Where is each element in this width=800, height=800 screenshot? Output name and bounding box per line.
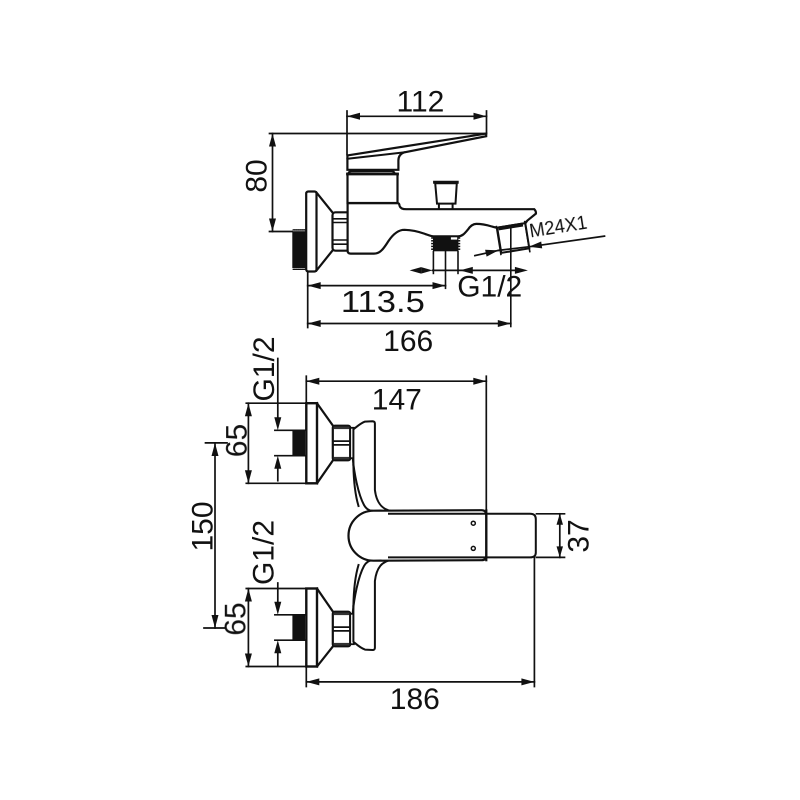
svg-text:113.5: 113.5 xyxy=(341,284,425,319)
svg-text:166: 166 xyxy=(383,325,433,358)
svg-text:112: 112 xyxy=(396,85,444,118)
svg-text:150: 150 xyxy=(186,501,219,551)
svg-text:37: 37 xyxy=(562,519,595,552)
svg-text:65: 65 xyxy=(221,424,254,457)
svg-text:G1/2: G1/2 xyxy=(247,520,280,585)
svg-text:G1/2: G1/2 xyxy=(457,271,522,304)
svg-text:G1/2: G1/2 xyxy=(248,336,281,401)
svg-text:80: 80 xyxy=(240,159,273,192)
svg-text:147: 147 xyxy=(372,383,422,416)
svg-text:186: 186 xyxy=(390,683,440,716)
svg-text:65: 65 xyxy=(219,602,252,635)
